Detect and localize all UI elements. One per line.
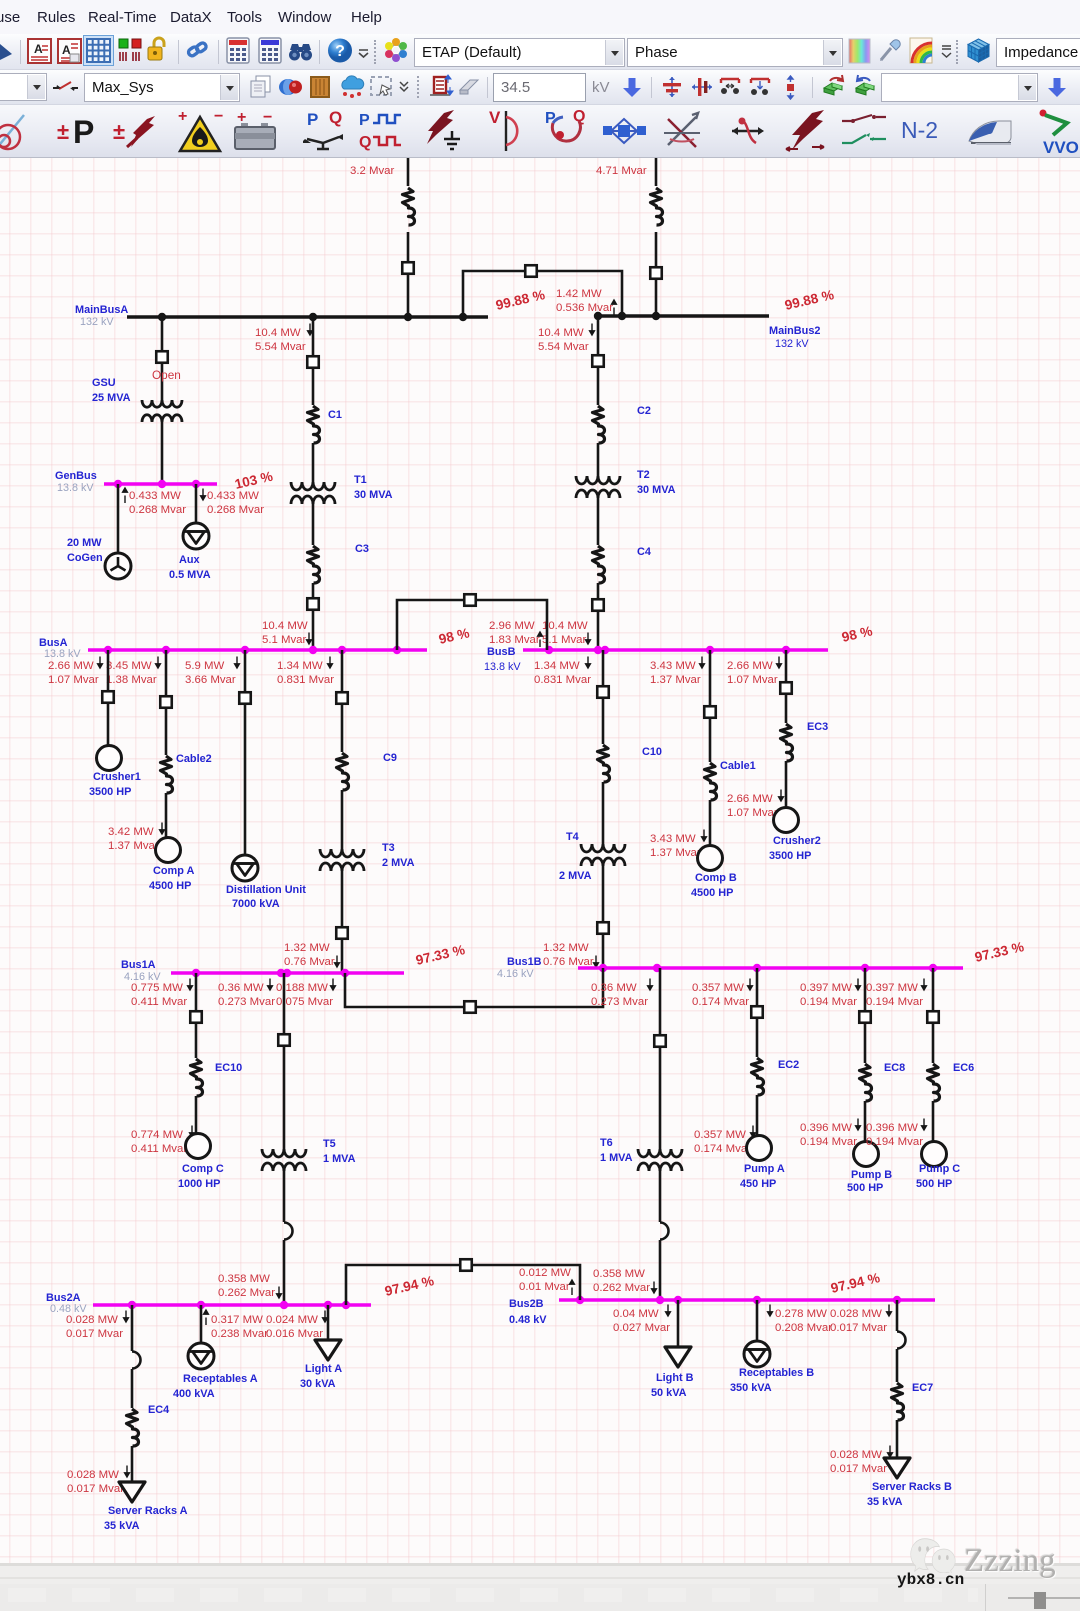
node BusB x598: [594, 646, 602, 654]
transformer T3 2 MVA: [320, 849, 364, 857]
svg-text:5.54 Mvar: 5.54 Mvar: [255, 341, 306, 353]
svg-text:1 MVA: 1 MVA: [323, 1153, 356, 1165]
fuse Server Racks A: [132, 1352, 141, 1369]
breaker T6: [654, 1035, 666, 1047]
svg-text:CoGen: CoGen: [67, 552, 103, 564]
breaker Crusher2: [780, 682, 792, 694]
bus Bus2A: [93, 1303, 371, 1307]
breaker Crusher1: [102, 691, 114, 703]
node on MainBusA x408: [404, 313, 412, 321]
svg-text:Comp C: Comp C: [182, 1163, 224, 1175]
svg-text:1.42 MW: 1.42 MW: [556, 288, 602, 300]
static load Light A 30 kVA: [315, 1340, 341, 1360]
svg-text:1.34 MW: 1.34 MW: [277, 660, 323, 672]
svg-text:0.36 MW: 0.36 MW: [591, 982, 637, 994]
lumped load Receptables A 400 kVA: [188, 1343, 214, 1369]
svg-text:1.38 Mvar: 1.38 Mvar: [106, 674, 157, 686]
bus BusA: [88, 648, 427, 652]
svg-text:500 HP: 500 HP: [847, 1182, 883, 1194]
fuse Server Racks B: [897, 1332, 906, 1349]
bus Bus2B: [559, 1298, 935, 1302]
svg-text:2.66 MW: 2.66 MW: [727, 660, 773, 672]
svg-text:Receptables A: Receptables A: [183, 1373, 258, 1385]
svg-text:0.268 Mvar: 0.268 Mvar: [129, 504, 186, 516]
tie wire Bus1A to Bus1B: [345, 968, 603, 1007]
svg-text:C2: C2: [637, 405, 651, 417]
svg-text:0.411 Mvar: 0.411 Mvar: [131, 996, 187, 1008]
motor Crusher2 3500 HP: [774, 808, 799, 833]
svg-text:103 %: 103 %: [233, 469, 274, 492]
svg-text:0.017 Mvar: 0.017 Mvar: [830, 1463, 887, 1475]
svg-text:1.83 Mvar: 1.83 Mvar: [489, 634, 540, 646]
svg-text:1.07 Mvar: 1.07 Mvar: [727, 674, 778, 686]
svg-text:132 kV: 132 kV: [775, 338, 809, 350]
svg-text:10.4 MW: 10.4 MW: [255, 327, 301, 339]
node GenBus x196: [192, 480, 200, 488]
svg-text:3500 HP: 3500 HP: [89, 786, 131, 798]
svg-text:98 %: 98 %: [437, 625, 471, 647]
bus Bus1A: [171, 971, 404, 975]
lumped load Receptables B 350 kVA: [744, 1341, 770, 1367]
svg-text:Crusher2: Crusher2: [773, 835, 821, 847]
svg-text:3.45 MW: 3.45 MW: [106, 660, 152, 672]
svg-text:1.07 Mvar: 1.07 Mvar: [48, 674, 99, 686]
svg-text:13.8 kV: 13.8 kV: [484, 661, 521, 673]
motor Comp C 1000 HP: [186, 1134, 211, 1159]
svg-text:Pump A: Pump A: [744, 1163, 785, 1175]
svg-text:30 MVA: 30 MVA: [637, 484, 676, 496]
node GenBus x162: [158, 480, 166, 488]
svg-text:0.174 Mvar: 0.174 Mvar: [692, 996, 749, 1008]
node Bus2A x132: [128, 1301, 136, 1309]
cable EC3: [781, 724, 793, 761]
bus Bus1B: [578, 966, 963, 970]
cable C3: [308, 546, 320, 583]
svg-text:0.775 MW: 0.775 MW: [131, 982, 183, 994]
svg-text:0.208 Mvar: 0.208 Mvar: [775, 1322, 832, 1334]
svg-text:0.36 MW: 0.36 MW: [218, 982, 264, 994]
flow label 0.433 MW 0.268 Mvar generator: [123, 488, 128, 503]
svg-text:3.42 MW: 3.42 MW: [108, 826, 154, 838]
svg-text:97.94 %: 97.94 %: [829, 1270, 881, 1296]
cable EC8: [860, 1064, 872, 1101]
node on MainBusA x162: [158, 313, 166, 321]
svg-text:0.027 Mvar: 0.027 Mvar: [613, 1322, 670, 1334]
bus MainBus2: [595, 314, 769, 318]
breaker top T4 branch: [597, 686, 609, 698]
svg-text:98 %: 98 %: [840, 623, 874, 645]
svg-text:0.262 Mvar: 0.262 Mvar: [218, 1287, 275, 1299]
tie wire Bus2A to Bus2B: [346, 1265, 580, 1305]
static load Server Racks B 35 kVA: [884, 1458, 910, 1478]
node Bus2B x897: [893, 1296, 901, 1304]
wire utility feed 2 into MainBus2: [655, 158, 658, 186]
wire BusB through Cable1 to Comp B: [709, 650, 712, 762]
svg-text:0.5 MVA: 0.5 MVA: [169, 569, 211, 581]
svg-text:4500 HP: 4500 HP: [691, 887, 733, 899]
wire Bus1B through EC6 to Pump C: [932, 968, 935, 1063]
cable EC10: [191, 1059, 203, 1096]
svg-text:4.71 Mvar: 4.71 Mvar: [596, 165, 647, 177]
breaker bottom T4 branch: [597, 922, 609, 934]
lumped load Distillation Unit 7000 kVA: [232, 855, 258, 881]
node Bus1B x933: [929, 964, 937, 972]
svg-text:0.194 Mvar: 0.194 Mvar: [800, 996, 857, 1008]
svg-text:0.397 MW: 0.397 MW: [866, 982, 918, 994]
svg-text:0.411 Mvar: 0.411 Mvar: [131, 1143, 187, 1155]
wire Bus2B to Receptables B: [756, 1300, 759, 1341]
svg-text:99.88 %: 99.88 %: [494, 287, 546, 313]
svg-text:400 kVA: 400 kVA: [173, 1388, 215, 1400]
node Bus1B x603: [599, 964, 607, 972]
motor Crusher1 3500 HP: [97, 746, 122, 771]
svg-text:GSU: GSU: [92, 377, 116, 389]
svg-text:0.028 MW: 0.028 MW: [66, 1314, 118, 1326]
svg-text:Bus1B: Bus1B: [507, 956, 542, 968]
svg-text:T3: T3: [382, 842, 395, 854]
svg-text:T2: T2: [637, 469, 650, 481]
svg-text:Distillation Unit: Distillation Unit: [226, 884, 306, 896]
wire GenBus to generator CoGen: [117, 484, 120, 553]
svg-text:Cable1: Cable1: [720, 760, 756, 772]
cable EC6: [928, 1064, 940, 1101]
motor Pump A 450 HP: [747, 1136, 772, 1161]
breaker Pump B: [859, 1011, 871, 1023]
generator CoGen 20 MW: [105, 553, 131, 579]
node BusA x342: [338, 646, 346, 654]
svg-text:30 kVA: 30 kVA: [300, 1378, 336, 1390]
svg-text:0.174 Mvar: 0.174 Mvar: [694, 1143, 751, 1155]
breaker bottom of C4: [592, 599, 604, 611]
breaker on feed 2: [650, 267, 662, 279]
svg-text:30 MVA: 30 MVA: [354, 489, 393, 501]
svg-text:0.017 Mvar: 0.017 Mvar: [830, 1322, 887, 1334]
svg-text:Aux: Aux: [179, 554, 200, 566]
transformer T4 2 MVA: [581, 844, 625, 852]
breaker top of C2: [592, 355, 604, 367]
svg-text:97.33 %: 97.33 %: [414, 942, 466, 968]
svg-text:1.37 Mvar: 1.37 Mvar: [650, 674, 701, 686]
lumped load Aux 0.5 MVA: [183, 523, 209, 549]
svg-text:5.9 MW: 5.9 MW: [185, 660, 224, 672]
reactor coil on feed 1: [403, 188, 415, 225]
svg-text:35 kVA: 35 kVA: [867, 1496, 903, 1508]
wire Bus2A to Light A: [327, 1305, 330, 1340]
svg-text:EC2: EC2: [778, 1059, 799, 1071]
node Bus1A x287: [283, 969, 291, 977]
wire Bus1B through EC8 to Pump B: [864, 968, 867, 1063]
svg-text:0.357 MW: 0.357 MW: [694, 1129, 746, 1141]
node Bus1B x757: [753, 964, 761, 972]
breaker bottom T3 branch: [336, 927, 348, 939]
svg-text:97.94 %: 97.94 %: [383, 1273, 435, 1299]
fuse on T6 branch: [660, 1223, 669, 1240]
svg-text:1.37 Mvar: 1.37 Mvar: [650, 847, 701, 859]
node Bus2B x580: [576, 1296, 584, 1304]
cable Cable2: [161, 756, 173, 793]
svg-text:C4: C4: [637, 546, 651, 558]
tie breaker BusA-BusB: [464, 594, 476, 606]
svg-text:0.024 MW: 0.024 MW: [266, 1314, 318, 1326]
svg-text:50 kVA: 50 kVA: [651, 1387, 687, 1399]
tie breaker: [525, 265, 537, 277]
svg-text:4.16 kV: 4.16 kV: [497, 968, 534, 980]
svg-text:500 HP: 500 HP: [916, 1178, 952, 1190]
svg-text:7000 kVA: 7000 kVA: [232, 898, 280, 910]
svg-text:0.01 Mvar: 0.01 Mvar: [519, 1281, 570, 1293]
svg-text:0.357 MW: 0.357 MW: [692, 982, 744, 994]
svg-text:EC6: EC6: [953, 1062, 974, 1074]
svg-text:1.34 MW: 1.34 MW: [534, 660, 580, 672]
tie breaker Bus1A-Bus1B: [464, 1001, 476, 1013]
svg-text:0.028 MW: 0.028 MW: [67, 1469, 119, 1481]
node on MainBus2 x598: [594, 312, 602, 320]
wire Bus1B through T6 to Bus2B: [659, 968, 662, 1150]
breaker top T3 branch: [336, 692, 348, 704]
svg-text:Server Racks A: Server Racks A: [108, 1505, 188, 1517]
svg-text:Cable2: Cable2: [176, 753, 212, 765]
svg-text:25 MVA: 25 MVA: [92, 392, 131, 404]
node BusB x710: [706, 646, 714, 654]
node BusA x397: [393, 646, 401, 654]
node Bus1A x345: [341, 969, 349, 977]
node Bus1A x196: [192, 969, 200, 977]
svg-text:5.1 Mvar: 5.1 Mvar: [262, 634, 307, 646]
svg-text:2 MVA: 2 MVA: [382, 857, 415, 869]
node Bus2A x346: [342, 1301, 350, 1309]
svg-text:0.028 MW: 0.028 MW: [830, 1308, 882, 1320]
transformer T6 1 MVA: [638, 1149, 682, 1157]
node BusA x313: [309, 646, 317, 654]
node on MainBus2 x622: [618, 312, 626, 320]
svg-text:10.4 MW: 10.4 MW: [542, 620, 588, 632]
wire GenBus to Aux load: [195, 484, 198, 523]
svg-text:0.831 Mvar: 0.831 Mvar: [277, 674, 334, 686]
breaker Comp C: [190, 1011, 202, 1023]
svg-text:Pump C: Pump C: [919, 1163, 960, 1175]
svg-text:3.43 MW: 3.43 MW: [650, 660, 696, 672]
breaker on feed 1: [402, 262, 414, 274]
node BusA x245: [241, 646, 249, 654]
cable EC4: [127, 1409, 139, 1446]
svg-text:0.016 Mvar: 0.016 Mvar: [266, 1328, 323, 1340]
svg-text:0.194 Mvar: 0.194 Mvar: [866, 1136, 923, 1148]
flow label 0.433 MW 0.268 Mvar Aux: [201, 489, 206, 501]
node on MainBusA x313: [309, 313, 317, 321]
svg-text:0.536 Mvar: 0.536 Mvar: [556, 302, 613, 314]
svg-text:0.831 Mvar: 0.831 Mvar: [534, 674, 591, 686]
breaker bottom of C3: [307, 598, 319, 610]
svg-text:0.238 Mvar: 0.238 Mvar: [211, 1328, 268, 1340]
svg-text:0.396 MW: 0.396 MW: [800, 1122, 852, 1134]
cable Cable1: [705, 763, 717, 800]
wire Bus1B through EC2 to Pump A: [756, 968, 759, 1057]
tie breaker Bus2A-Bus2B: [460, 1259, 472, 1271]
svg-text:2 MVA: 2 MVA: [559, 870, 592, 882]
svg-text:97.33 %: 97.33 %: [973, 939, 1025, 965]
svg-text:3500 HP: 3500 HP: [769, 850, 811, 862]
cable C9: [337, 753, 349, 790]
svg-text:Crusher1: Crusher1: [93, 771, 141, 783]
cable C10: [598, 745, 610, 782]
breaker Pump A: [751, 1006, 763, 1018]
svg-text:Receptables B: Receptables B: [739, 1367, 814, 1379]
node Bus1B x657: [653, 964, 661, 972]
wire Bus1A through T5 to Bus2A: [283, 973, 286, 1150]
motor Pump C 500 HP: [922, 1142, 947, 1167]
svg-text:Bus2B: Bus2B: [509, 1298, 544, 1310]
motor Pump B 500 HP: [854, 1142, 879, 1167]
wire MainBusA through C1 T1 C3 to BusA: [312, 317, 315, 405]
svg-text:2.66 MW: 2.66 MW: [48, 660, 94, 672]
svg-text:1000 HP: 1000 HP: [178, 1178, 220, 1190]
transformer GSU: [142, 400, 182, 407]
svg-text:Pump B: Pump B: [851, 1169, 892, 1181]
svg-text:0.194 Mvar: 0.194 Mvar: [866, 996, 923, 1008]
node Bus1A x281: [277, 969, 285, 977]
wire MainBus2 through C2 T2 C4 to BusB: [597, 316, 600, 405]
breaker Pump C: [927, 1011, 939, 1023]
svg-text:C9: C9: [383, 752, 397, 764]
static load Light B 50 kVA: [665, 1347, 691, 1367]
transformer T5 1 MVA: [262, 1149, 306, 1157]
reactor coil on feed 2: [651, 188, 663, 225]
cable EC7: [892, 1383, 904, 1420]
svg-text:0.396 MW: 0.396 MW: [866, 1122, 918, 1134]
svg-text:Light B: Light B: [656, 1372, 694, 1384]
wire Bus1A through EC10 to Comp C: [195, 973, 198, 1058]
svg-text:3.2 Mvar: 3.2 Mvar: [350, 165, 395, 177]
cable C4: [593, 546, 605, 583]
cable C1: [308, 406, 320, 443]
svg-text:0.017 Mvar: 0.017 Mvar: [67, 1483, 124, 1495]
svg-text:1.07 Mvar: 1.07 Mvar: [727, 807, 778, 819]
svg-text:Comp B: Comp B: [695, 872, 737, 884]
wire BusB through C10 T4 to Bus1B: [602, 650, 605, 744]
wire BusB through EC3 to Crusher2: [785, 650, 788, 723]
svg-text:0.774 MW: 0.774 MW: [131, 1129, 183, 1141]
breaker Distillation Unit: [239, 692, 251, 704]
svg-text:T4: T4: [566, 831, 579, 843]
node Bus2A x328: [324, 1301, 332, 1309]
svg-text:3.43 MW: 3.43 MW: [650, 833, 696, 845]
svg-text:5.1 Mvar: 5.1 Mvar: [542, 634, 587, 646]
svg-text:C1: C1: [328, 409, 342, 421]
breaker Comp A: [160, 696, 172, 708]
svg-text:0.273 Mvar: 0.273 Mvar: [218, 996, 275, 1008]
fuse on T5 branch: [284, 1223, 293, 1240]
svg-text:Light A: Light A: [305, 1363, 342, 1375]
svg-text:GenBus: GenBus: [55, 470, 97, 482]
node GenBus x118: [114, 480, 122, 488]
wire BusA to Distillation Unit: [244, 650, 247, 855]
svg-text:1.32 MW: 1.32 MW: [284, 942, 330, 954]
svg-text:T5: T5: [323, 1138, 336, 1150]
svg-text:450 HP: 450 HP: [740, 1178, 776, 1190]
node BusB x786: [782, 646, 790, 654]
svg-text:0.358 MW: 0.358 MW: [593, 1268, 645, 1280]
breaker top of C1: [307, 356, 319, 368]
svg-text:0.017 Mvar: 0.017 Mvar: [66, 1328, 123, 1340]
wire Bus2A to Receptables A: [200, 1305, 203, 1343]
svg-text:0.028 MW: 0.028 MW: [830, 1449, 882, 1461]
svg-text:C3: C3: [355, 543, 369, 555]
svg-text:0.278 MW: 0.278 MW: [775, 1308, 827, 1320]
svg-text:C10: C10: [642, 746, 662, 758]
svg-text:132 kV: 132 kV: [80, 316, 114, 328]
wire BusA through C9 T3 to Bus1A: [341, 650, 344, 752]
cable C2: [593, 406, 605, 443]
svg-text:0.433 MW: 0.433 MW: [207, 490, 259, 502]
svg-text:0.262 Mvar: 0.262 Mvar: [593, 1282, 650, 1294]
svg-text:EC8: EC8: [884, 1062, 905, 1074]
svg-text:13.8 kV: 13.8 kV: [44, 648, 81, 660]
svg-text:EC7: EC7: [912, 1382, 933, 1394]
svg-text:Open: Open: [152, 368, 181, 382]
svg-text:0.397 MW: 0.397 MW: [800, 982, 852, 994]
svg-text:0.194 Mvar: 0.194 Mvar: [800, 1136, 857, 1148]
wire BusA to motor Crusher1: [107, 650, 110, 746]
svg-text:20 MW: 20 MW: [67, 537, 102, 549]
node on MainBus2 x656: [652, 312, 660, 320]
node BusA x108: [104, 646, 112, 654]
breaker GSU (open): [156, 351, 168, 363]
svg-text:Server Racks B: Server Racks B: [872, 1481, 952, 1493]
svg-text:MainBusA: MainBusA: [75, 304, 128, 316]
motor Comp B 4500 HP: [698, 846, 723, 871]
svg-text:3.66 Mvar: 3.66 Mvar: [185, 674, 236, 686]
breaker T5: [278, 1034, 290, 1046]
svg-text:T6: T6: [600, 1137, 613, 1149]
wire BusA through Cable2 to Comp A: [165, 650, 168, 755]
transformer T2 30 MVA: [576, 476, 620, 484]
wire utility feed 1 into MainBusA: [407, 158, 410, 186]
svg-text:MainBus2: MainBus2: [769, 325, 820, 337]
svg-text:1.32 MW: 1.32 MW: [543, 942, 589, 954]
node Bus2B x678: [674, 1296, 682, 1304]
svg-text:EC4: EC4: [148, 1404, 169, 1416]
node on MainBusA x463: [459, 313, 467, 321]
bus MainBusA: [127, 315, 488, 319]
node Bus1B x865: [861, 964, 869, 972]
svg-text:0.48 kV: 0.48 kV: [509, 1314, 547, 1326]
svg-text:T1: T1: [354, 474, 367, 486]
wire Bus2B through EC7 to Server Racks B: [896, 1300, 899, 1331]
svg-text:10.4 MW: 10.4 MW: [538, 327, 584, 339]
node BusB x549: [545, 646, 553, 654]
svg-text:4500 HP: 4500 HP: [149, 880, 191, 892]
static load Server Racks A 35 kVA: [119, 1482, 145, 1502]
svg-text:1.37 Mvar: 1.37 Mvar: [108, 840, 159, 852]
svg-text:35 kVA: 35 kVA: [104, 1520, 140, 1532]
svg-text:13.8 kV: 13.8 kV: [57, 482, 94, 494]
node Bus2B x757: [753, 1296, 761, 1304]
svg-text:99.88 %: 99.88 %: [783, 287, 835, 313]
svg-text:EC3: EC3: [807, 721, 828, 733]
breaker Comp B: [704, 706, 716, 718]
svg-text:0.317 MW: 0.317 MW: [211, 1314, 263, 1326]
wire MainBusA to GSU transformer to GenBus: [161, 317, 164, 401]
transformer T1 30 MVA: [291, 482, 335, 490]
svg-text:5.54 Mvar: 5.54 Mvar: [538, 341, 589, 353]
wire Bus2B to Light B: [677, 1300, 680, 1347]
motor Comp A 4500 HP: [156, 838, 181, 863]
node Bus2A x201: [197, 1301, 205, 1309]
svg-text:Bus1A: Bus1A: [121, 959, 156, 971]
bus BusB: [523, 648, 828, 652]
tie wire MainBusA to MainBus2: [463, 271, 622, 317]
svg-text:2.96 MW: 2.96 MW: [489, 620, 535, 632]
